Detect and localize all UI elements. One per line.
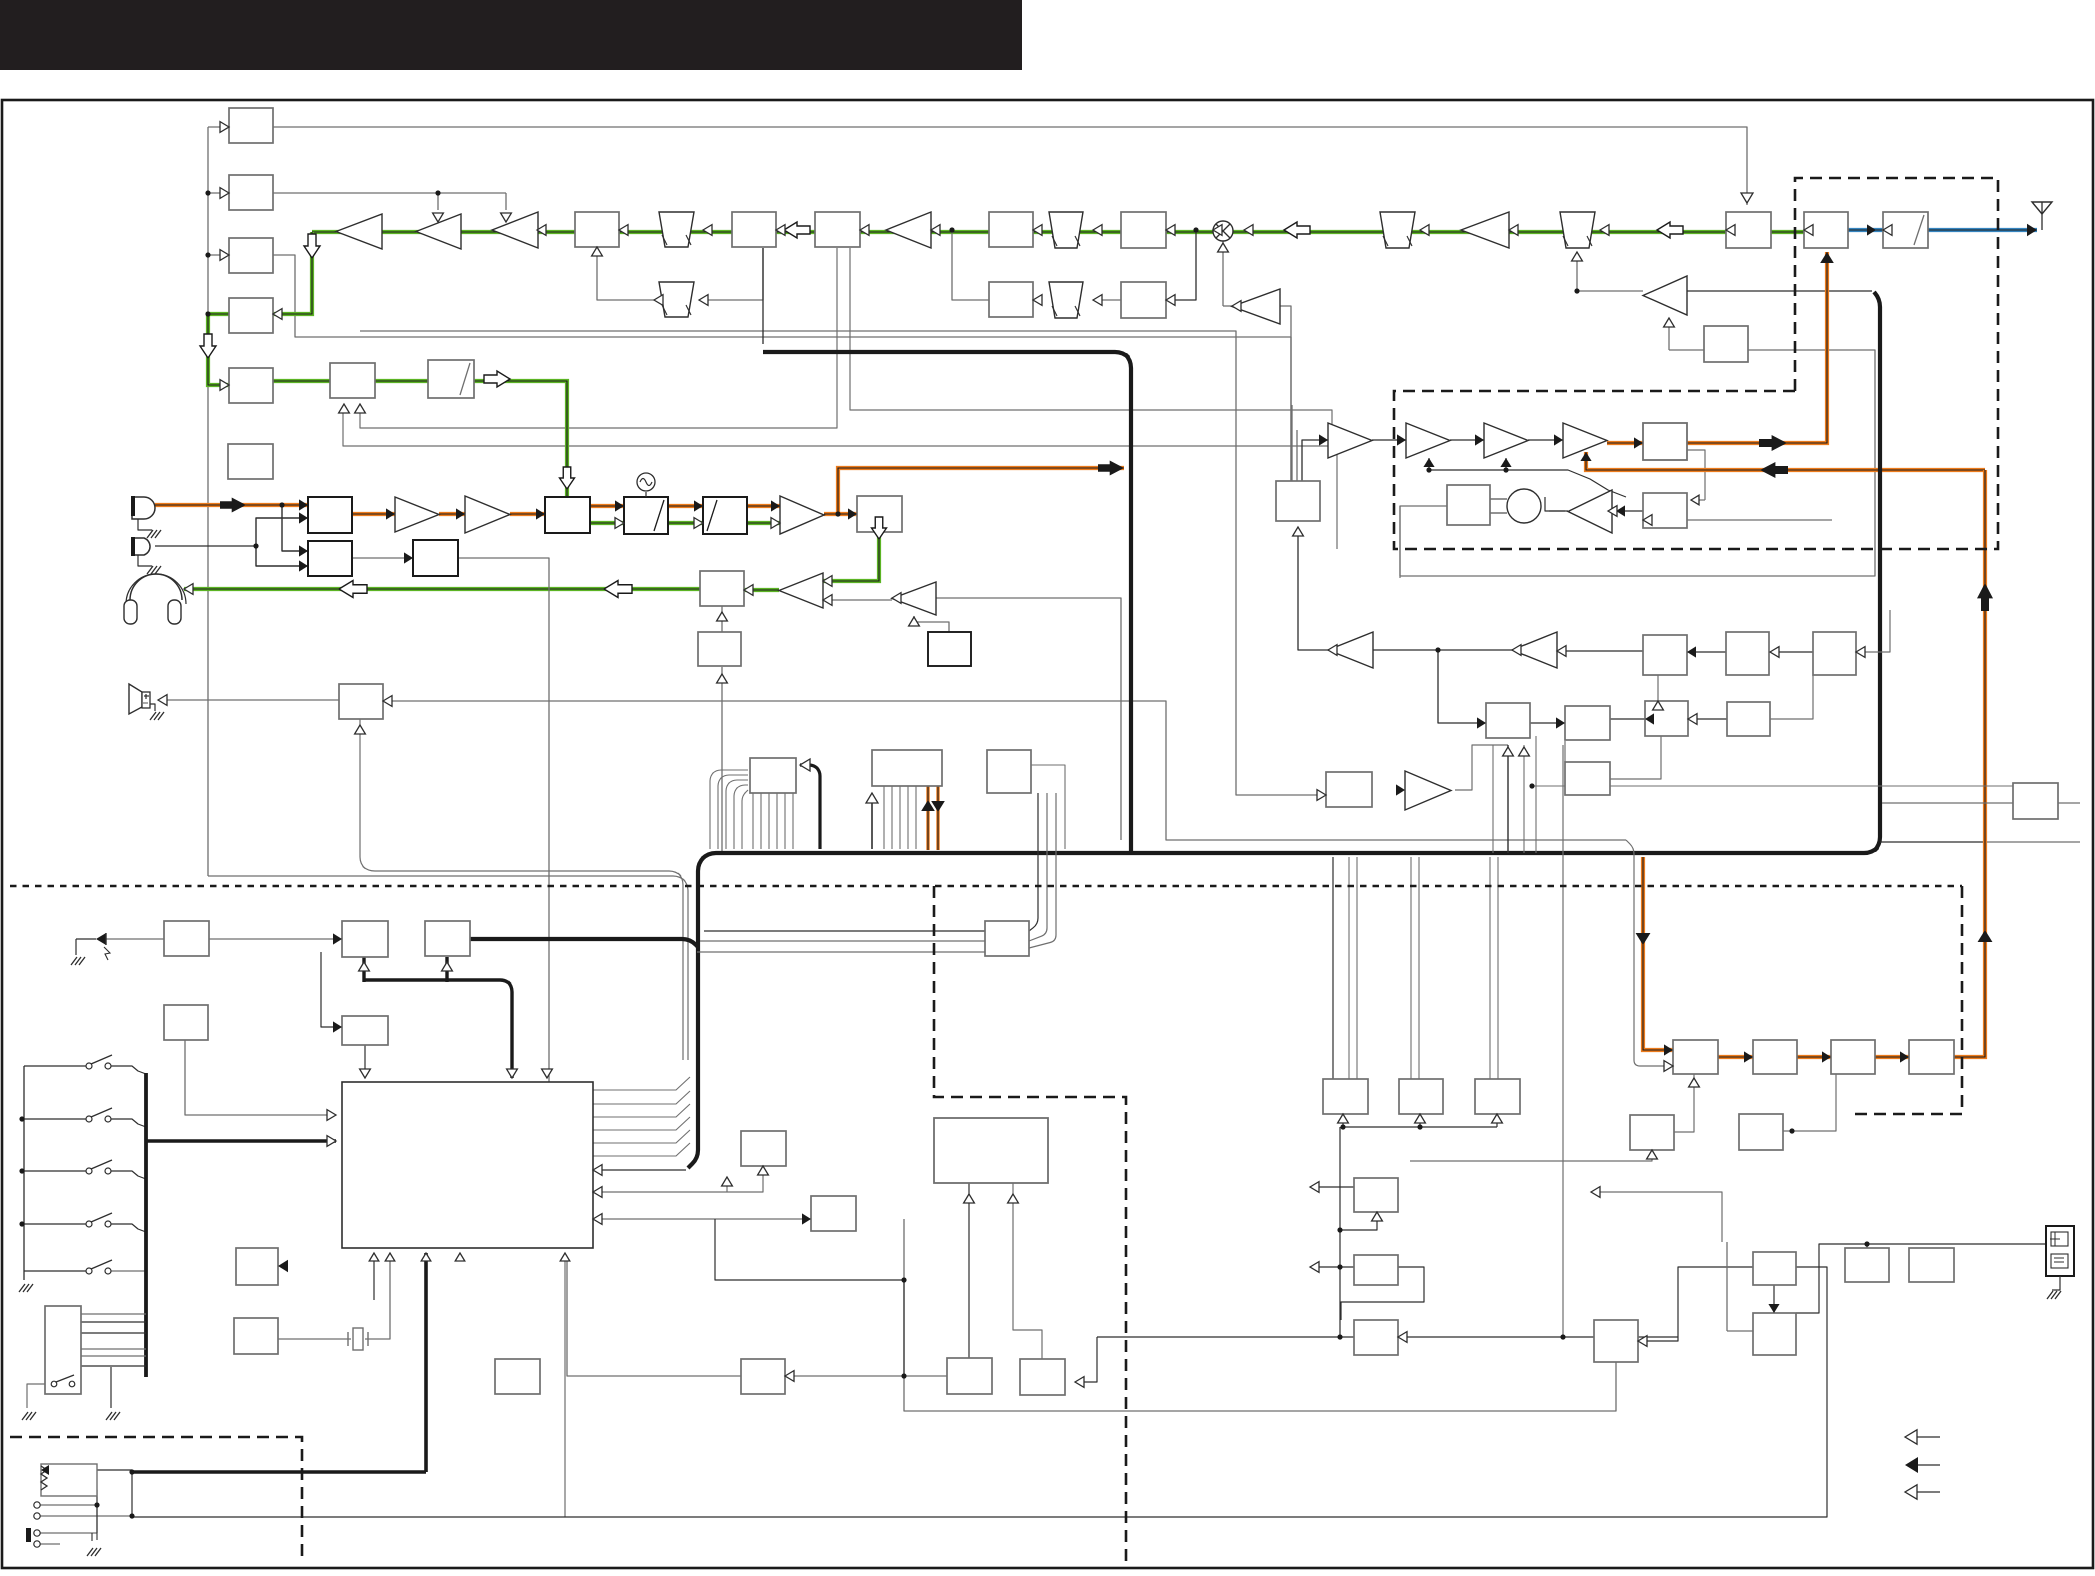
block agc amp <box>229 175 273 210</box>
orange pair in fan <box>926 786 929 850</box>
dashed separator main <box>10 885 1962 888</box>
block rx if <box>1753 1040 1797 1074</box>
block bl led <box>947 1358 992 1394</box>
gray line beside orange down <box>1626 840 1642 1066</box>
orange fan arrows <box>921 800 935 811</box>
block backup <box>164 921 209 956</box>
wire: PA bias net <box>1428 458 1430 470</box>
block data io <box>811 1196 856 1231</box>
block 2nd mixer <box>575 212 619 247</box>
right blocks y=920 wires <box>1208 731 1326 795</box>
block eeprom <box>750 758 796 793</box>
big block right fan to bus <box>593 1077 690 1090</box>
block rx mix <box>1673 1040 1718 1074</box>
block rx af <box>1909 1040 1954 1074</box>
rx chain bottom arrows <box>1636 933 1651 945</box>
controller arrows <box>333 933 342 944</box>
block rx det <box>1831 1040 1875 1074</box>
block mix buffer <box>989 212 1033 247</box>
wire: green elbow down to AF det block <box>229 232 312 314</box>
right bottom cluster wires <box>1773 1285 1775 1313</box>
wire: mixer LO input chain <box>1222 241 1224 306</box>
block shift reg <box>1326 772 1372 807</box>
big hollow arrows green path <box>304 234 320 258</box>
mid right row wires <box>1530 722 1565 724</box>
block s-meter <box>229 238 273 273</box>
headphone symbol <box>130 574 182 600</box>
verticals bus to bottom blocks <box>1332 857 1334 1079</box>
block limiter <box>428 360 474 398</box>
thick bus: TX/RX switch line <box>763 352 1131 853</box>
wire: blue antenna feed <box>1848 228 1883 232</box>
filter bpf2 <box>1560 212 1595 248</box>
block if amp2 <box>1121 212 1166 248</box>
wire: PLL block to buffer tri <box>1298 527 1328 650</box>
DSP right thick link <box>800 765 820 849</box>
wire: orange return line to PA bias <box>1586 452 1985 470</box>
wire: block3 to PLL data <box>273 255 1291 481</box>
block acc <box>1909 1248 1954 1282</box>
filter cf3 <box>659 282 694 317</box>
right mid feed from tri row <box>1455 745 1508 790</box>
block fm detector <box>229 298 273 333</box>
amp lf buffer1 <box>1328 632 1373 668</box>
block data buffer <box>985 921 1029 956</box>
block regulator main <box>425 921 470 956</box>
xtal osc circle <box>1507 489 1541 523</box>
switches panel <box>23 1066 25 1280</box>
long ctrl lines to right <box>704 930 985 932</box>
block pll ic <box>1276 481 1320 521</box>
wire: trapezoid feedback right <box>1576 252 1578 291</box>
amp mic2 <box>465 496 510 533</box>
switch inside connector <box>51 1381 57 1387</box>
wire: left column feed vertical <box>207 127 209 876</box>
wire: det out top row to RF switch <box>273 127 1747 205</box>
wire: orange to TX vco out <box>824 512 857 516</box>
thick bus: main horizontal <box>688 292 1880 1168</box>
connector lines <box>81 1313 146 1315</box>
amp if1 <box>492 212 538 248</box>
filter bpf1 <box>1380 212 1415 248</box>
block reg2 <box>1565 706 1610 740</box>
wire: RF sw control block <box>1668 318 1670 350</box>
amp tx pre <box>780 496 824 534</box>
block beep gen <box>928 632 971 666</box>
pin lines <box>40 1504 97 1506</box>
block pa module <box>1643 423 1687 460</box>
thick switch bus <box>144 1073 148 1377</box>
mixer 1st <box>1213 221 1233 241</box>
xtal block lines <box>278 1338 351 1340</box>
thick: key line join <box>470 939 698 947</box>
wire: AF amp control verticals <box>721 606 723 632</box>
controller block aux wires <box>106 938 164 940</box>
block under big: down arrow line <box>726 1177 728 1192</box>
block antenna switch <box>1804 212 1848 248</box>
block mic amp2 <box>330 363 375 398</box>
row1 small arrows <box>537 225 546 236</box>
wire: ALC det loop <box>1545 497 1568 511</box>
block vco mod <box>624 497 668 534</box>
block 5v reg <box>1726 632 1769 675</box>
block cpu main <box>342 1082 593 1248</box>
block xtal osc <box>234 1318 278 1354</box>
block swr det <box>1643 493 1687 528</box>
row1 upper feeds <box>1572 252 1583 261</box>
block sw reg <box>1643 635 1687 675</box>
block io expander <box>987 750 1031 793</box>
long bottom signal <box>132 1267 1827 1517</box>
switch at y=1224 <box>86 1221 92 1227</box>
header black bar <box>0 0 1022 70</box>
wire: det line to pa area <box>850 248 1332 446</box>
block audio ic <box>872 750 942 786</box>
osc tcxo <box>637 473 655 491</box>
block power module <box>934 1118 1048 1183</box>
xtal line <box>185 1021 208 1023</box>
wire: mic2 block K path down <box>352 557 413 559</box>
bottom connector pins <box>34 1502 40 1508</box>
switch at y=1171 <box>86 1168 92 1174</box>
block sq gate <box>1594 1320 1638 1362</box>
block data det <box>1753 1252 1796 1285</box>
PA chain arrows <box>1319 434 1328 445</box>
mic input bracket <box>282 505 308 551</box>
block 8v reg <box>1813 632 1856 675</box>
amp af2 <box>892 582 936 615</box>
wire: af tri 2nd input <box>823 599 892 601</box>
block af sw <box>495 1359 540 1394</box>
crystal symbol <box>353 1328 363 1350</box>
block beat shift <box>741 1131 786 1166</box>
block lcd <box>236 1248 278 1285</box>
amp pa drive1 <box>1406 423 1450 458</box>
wire: orange up to bus <box>838 468 1124 514</box>
speaker symbol <box>129 684 142 714</box>
amp lf buffer2 <box>1512 632 1557 668</box>
AF arrows <box>184 584 193 595</box>
amp rf1 <box>1461 212 1509 248</box>
pot wires <box>46 1469 132 1471</box>
block ptt sw <box>2013 783 2058 819</box>
amp pa drive2 <box>1484 423 1528 458</box>
block buffer ic <box>342 1016 388 1045</box>
block if amp <box>732 212 776 247</box>
block lcd drv <box>164 1005 208 1040</box>
amp buf1 <box>1328 423 1372 458</box>
line y=1337 <box>1097 1336 1678 1338</box>
bottom row arrows <box>785 1371 794 1382</box>
rx2 cluster wires <box>1783 1074 1836 1131</box>
wire: 2nd IF sub row <box>952 232 989 300</box>
wire: sub row y=300 filter loop <box>699 248 763 300</box>
wire: AGC line from block row2 <box>273 192 506 194</box>
block dimmer <box>741 1359 785 1394</box>
fan under right block <box>1031 765 1065 849</box>
block reg b <box>1399 1079 1443 1114</box>
big block bottom pins <box>373 1253 375 1300</box>
wire: two long AF returns to bus <box>208 876 688 1060</box>
dashed box bottom left <box>10 1437 302 1563</box>
mic 2 symbol <box>132 538 150 555</box>
mic 1 symbol <box>132 497 155 519</box>
filter cf1 <box>659 212 694 247</box>
block batt sense <box>1354 1178 1398 1212</box>
wire: buffer tri feed from thick corner <box>1687 290 1872 292</box>
dashed region controller <box>934 886 1126 1563</box>
block lpf <box>1883 212 1928 248</box>
top-right antenna sw control <box>1574 288 1579 293</box>
amp rf3 <box>886 212 931 248</box>
filter cf4 <box>1049 282 1083 318</box>
block reg a <box>1323 1079 1368 1114</box>
amp if2 <box>416 214 461 249</box>
connector main <box>45 1306 81 1394</box>
block reg c <box>1475 1079 1520 1114</box>
block tone gen <box>413 540 458 576</box>
antenna symbol <box>2032 202 2052 214</box>
block af filter <box>229 368 273 403</box>
wire: AF green to headphone <box>184 587 700 591</box>
amp lo buffer <box>1232 289 1280 324</box>
TX mod arrows <box>220 498 246 513</box>
block agc ctrl <box>1704 326 1748 362</box>
fan ribbon under DSP <box>752 793 754 849</box>
wire: green from vco block down to RX AF <box>823 532 879 581</box>
potentiometer symbol <box>41 1464 97 1496</box>
legend arrows <box>1905 1430 1917 1444</box>
block noise amp <box>1739 1114 1783 1150</box>
block mod select <box>545 497 590 533</box>
wire: green TX row2 <box>273 381 567 497</box>
wire: green RX chain main (y=230) <box>312 230 1804 234</box>
wire: second PLL data line <box>360 331 1326 795</box>
diode / lamp symbol <box>96 933 106 945</box>
amp alc det <box>1568 490 1612 533</box>
block vco buffer <box>703 497 747 534</box>
wire: speaker line <box>158 699 339 701</box>
thick volume line <box>424 1253 428 1472</box>
amp if3 <box>336 214 382 249</box>
wire: TX row2 ctrl feeds <box>343 412 1337 549</box>
block reg5 <box>1565 762 1610 795</box>
wire: TX mic pair <box>155 503 308 507</box>
block tx vco <box>857 496 902 532</box>
wire: PA chain control <box>1302 440 1328 481</box>
antenna stem <box>2041 214 2043 230</box>
amp drive <box>1405 771 1451 810</box>
connector CH symbol <box>2046 1226 2074 1276</box>
filter cf2 <box>1049 212 1083 248</box>
block reg4 <box>1727 702 1770 736</box>
PLL arrows <box>1293 527 1304 536</box>
block tone dec <box>1753 1313 1796 1355</box>
block noise-blanker <box>229 108 273 143</box>
wire: tri input net <box>1373 650 1486 723</box>
block amp <box>1121 282 1166 318</box>
block sq ctrl <box>1630 1115 1674 1150</box>
switch at y=1119 <box>86 1116 92 1122</box>
mid right arrows <box>1556 717 1565 728</box>
2015 block link <box>2058 802 2080 804</box>
block power ctl <box>1020 1359 1065 1395</box>
wire: mod chain green lower <box>589 521 624 525</box>
switch at y=1066 <box>86 1063 92 1069</box>
block dtmf mixer <box>308 541 352 576</box>
block af volume <box>700 571 744 606</box>
dashed box PA / antenna switch <box>1394 178 1998 549</box>
wire: PA out orange <box>1607 441 1643 445</box>
block tone squelch <box>228 444 273 479</box>
block reset ic <box>342 921 388 957</box>
block reg1 <box>1486 703 1530 738</box>
block cpu reset <box>1354 1320 1398 1355</box>
block reg3 <box>1645 701 1688 736</box>
amp mic1 <box>395 497 439 532</box>
orange RX bottom chain <box>1718 1055 1753 1059</box>
block mic mute <box>308 497 352 533</box>
block det buffer <box>989 282 1033 317</box>
wire: det row2 tri output left <box>1549 510 1565 512</box>
fan ribbon left of DSP <box>710 770 748 849</box>
block apc <box>1447 485 1490 525</box>
amp rf agc <box>1643 276 1687 315</box>
wire: ant sw feedback down <box>1687 450 1705 500</box>
orange RX out down <box>1643 857 1673 1050</box>
block 1st if <box>815 212 860 247</box>
fan under big IC <box>871 795 873 849</box>
block rf attenuator <box>1726 212 1771 248</box>
net under three blocks <box>1343 1126 1497 1128</box>
thin line right of bus <box>1880 841 1983 843</box>
block af mute <box>698 632 741 666</box>
thick key input <box>146 1139 336 1143</box>
switch at y=1271 <box>86 1268 92 1274</box>
block power sw <box>1354 1255 1398 1285</box>
block ext io <box>1845 1248 1889 1282</box>
block spk amp <box>339 684 383 719</box>
CH connector line <box>1796 1244 2048 1313</box>
bottom row chain y=1376 <box>567 1260 741 1376</box>
amp pa final <box>1563 423 1607 458</box>
wire: mod chain orange <box>352 512 395 516</box>
dashed box right-mid <box>1850 886 1962 1114</box>
arrows left column <box>220 122 229 133</box>
thick bus arrows <box>800 759 810 771</box>
amp af1 <box>779 573 823 608</box>
